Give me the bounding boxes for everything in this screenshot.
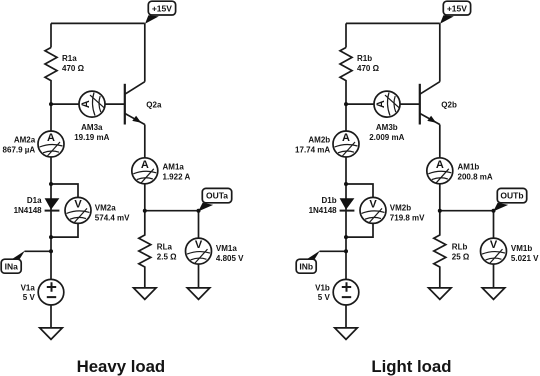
svg-text:574.4 mV: 574.4 mV <box>95 213 130 222</box>
svg-text:Q2b: Q2b <box>441 100 457 109</box>
svg-text:200.8 mA: 200.8 mA <box>458 173 493 182</box>
svg-text:Q2a: Q2a <box>146 100 162 109</box>
svg-text:VM1a: VM1a <box>216 244 237 253</box>
svg-text:470 Ω: 470 Ω <box>357 64 380 73</box>
svg-text:Light load: Light load <box>371 357 451 376</box>
svg-text:R1b: R1b <box>357 54 372 63</box>
svg-text:19.19 mA: 19.19 mA <box>74 133 109 142</box>
svg-text:5.021 V: 5.021 V <box>511 254 539 263</box>
svg-text:AM2b: AM2b <box>308 135 330 144</box>
svg-text:719.8 mV: 719.8 mV <box>390 213 425 222</box>
svg-text:AM1b: AM1b <box>458 163 480 172</box>
svg-text:AM2a: AM2a <box>14 135 36 144</box>
svg-text:VM1b: VM1b <box>511 244 532 253</box>
svg-text:Heavy load: Heavy load <box>77 357 166 376</box>
svg-text:5 V: 5 V <box>318 293 331 302</box>
svg-text:2.5 Ω: 2.5 Ω <box>157 252 177 261</box>
svg-text:+15V: +15V <box>152 3 172 13</box>
svg-text:V1a: V1a <box>21 283 36 292</box>
svg-text:AM3a: AM3a <box>81 123 103 132</box>
svg-text:RLb: RLb <box>452 242 468 251</box>
svg-text:A: A <box>436 159 444 171</box>
svg-text:A: A <box>80 100 92 108</box>
svg-text:R1a: R1a <box>62 54 77 63</box>
svg-text:A: A <box>141 159 149 171</box>
svg-text:1.922 A: 1.922 A <box>163 173 191 182</box>
svg-text:VM2a: VM2a <box>95 203 116 212</box>
svg-text:OUTa: OUTa <box>206 191 228 201</box>
svg-text:470 Ω: 470 Ω <box>62 64 85 73</box>
svg-text:OUTb: OUTb <box>500 191 523 201</box>
svg-text:A: A <box>375 100 387 108</box>
svg-text:D1b: D1b <box>321 196 336 205</box>
svg-text:V: V <box>369 198 377 210</box>
svg-text:V: V <box>490 239 498 251</box>
svg-text:INb: INb <box>299 261 313 271</box>
svg-text:867.9 µA: 867.9 µA <box>3 145 36 154</box>
svg-text:V: V <box>195 239 203 251</box>
svg-text:1N4148: 1N4148 <box>14 206 43 215</box>
svg-text:2.009 mA: 2.009 mA <box>369 133 404 142</box>
svg-text:+15V: +15V <box>447 3 467 13</box>
svg-text:AM3b: AM3b <box>376 123 398 132</box>
svg-text:A: A <box>47 132 55 144</box>
svg-text:5 V: 5 V <box>23 293 36 302</box>
svg-text:V: V <box>74 198 82 210</box>
svg-text:4.805 V: 4.805 V <box>216 254 244 263</box>
svg-text:VM2b: VM2b <box>390 203 411 212</box>
svg-text:AM1a: AM1a <box>163 163 185 172</box>
svg-text:1N4148: 1N4148 <box>309 206 338 215</box>
svg-text:D1a: D1a <box>27 196 42 205</box>
svg-text:17.74 mA: 17.74 mA <box>295 145 330 154</box>
svg-text:RLa: RLa <box>157 242 173 251</box>
svg-text:V1b: V1b <box>315 283 330 292</box>
svg-text:INa: INa <box>5 261 19 271</box>
svg-text:A: A <box>342 132 350 144</box>
svg-text:25 Ω: 25 Ω <box>452 252 470 261</box>
